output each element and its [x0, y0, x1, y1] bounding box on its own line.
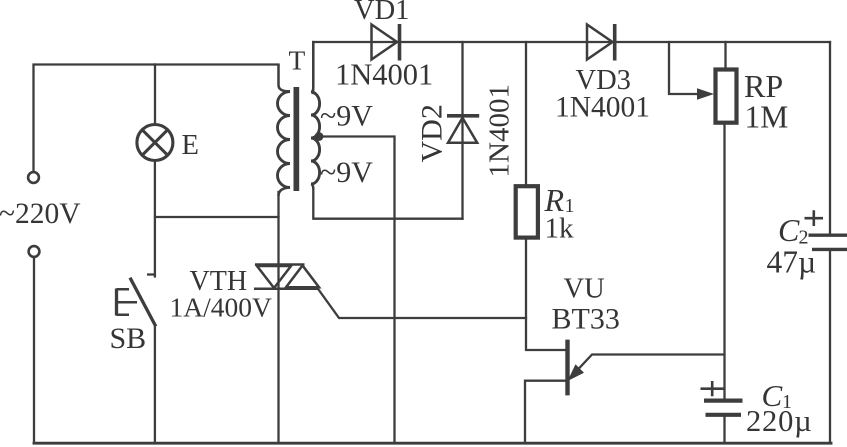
wire lamp branch upper — [154, 65, 156, 124]
svg-text:~9V: ~9V — [320, 156, 373, 189]
diode VD1 — [372, 24, 400, 61]
center tap dot — [315, 132, 324, 141]
wire bottom rail — [34, 442, 831, 445]
wire primary bottom through triac to bottom rail — [277, 192, 279, 443]
svg-text:~220V: ~220V — [0, 198, 81, 230]
emitter arrowhead — [568, 364, 585, 381]
svg-text:1N4001: 1N4001 — [335, 58, 433, 92]
wire base1 — [525, 381, 566, 444]
terminal upper — [28, 172, 39, 183]
wire right edge upper — [829, 42, 831, 234]
wire secondary top lead — [312, 42, 314, 93]
wire lamp to switch — [154, 162, 156, 277]
svg-text:1k: 1k — [545, 213, 575, 245]
wire lamp branch to triac — [155, 216, 279, 218]
diode VD2 — [447, 116, 479, 143]
svg-text:220µ: 220µ — [746, 404, 813, 438]
wire RP wiper branch — [669, 42, 699, 94]
RP wiper arrowhead — [697, 88, 714, 99]
transistor VU BT33 base bar — [565, 340, 569, 396]
wire secondary bottom to VD2 — [313, 189, 462, 219]
wire R1 bottom to base2 — [526, 240, 566, 350]
transformer T primary coil — [278, 65, 291, 197]
wire rail to R1 top — [525, 42, 527, 184]
label plus C1 — [701, 381, 725, 396]
lamp E — [137, 125, 173, 161]
wire RP bottom to C1 — [723, 124, 725, 399]
svg-text:E: E — [182, 130, 199, 161]
wire rail to RP top — [724, 42, 726, 68]
svg-text:C: C — [778, 212, 800, 248]
label plus C2 — [805, 210, 824, 226]
wire right edge lower — [829, 251, 831, 443]
svg-text:~9V: ~9V — [320, 100, 373, 133]
svg-text:1A/400V: 1A/400V — [170, 292, 273, 323]
transformer core — [294, 87, 300, 191]
wire VD2 vertical — [461, 42, 463, 219]
wire top rail — [313, 41, 830, 43]
svg-text:VD1: VD1 — [354, 0, 409, 26]
svg-text:47µ: 47µ — [767, 245, 817, 280]
svg-text:1N4001: 1N4001 — [484, 84, 516, 177]
terminal lower — [29, 246, 40, 257]
potentiometer RP — [716, 70, 737, 123]
svg-text:VU: VU — [564, 274, 605, 305]
wire triac gate — [319, 290, 527, 319]
diode VD3 — [587, 24, 615, 61]
svg-text:VD2: VD2 — [416, 104, 449, 162]
resistor R1 — [516, 186, 538, 237]
transformer T secondary coil — [311, 42, 320, 189]
svg-text:SB: SB — [110, 322, 147, 355]
capacitor C2 — [809, 235, 847, 249]
svg-text:BT33: BT33 — [552, 303, 620, 336]
svg-text:1M: 1M — [745, 100, 789, 135]
wire center tap — [319, 137, 395, 444]
wire top-left L from terminal to primary top — [34, 65, 279, 173]
svg-text:1N4001: 1N4001 — [555, 92, 650, 124]
capacitor C1 — [704, 401, 743, 415]
wire C1 to bottom rail — [723, 417, 725, 444]
wire left bottom vertical — [33, 258, 35, 444]
svg-text:T: T — [289, 45, 306, 76]
wire switch to bottom rail — [154, 327, 156, 443]
switch SB — [117, 275, 156, 327]
triac VTH — [254, 265, 319, 289]
wire emitter horizontal — [570, 355, 724, 379]
